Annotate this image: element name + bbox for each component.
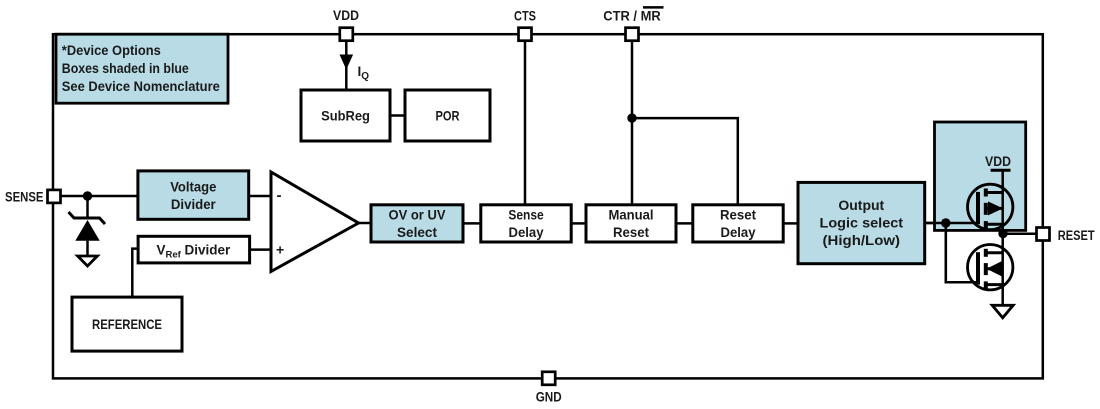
svg-text:Reset: Reset [720,207,756,223]
svg-text:*Device Options: *Device Options [62,43,161,58]
svg-text:OV or UV: OV or UV [389,207,447,223]
svg-text:IQ: IQ [358,64,370,82]
svg-text:REFERENCE: REFERENCE [92,316,162,332]
svg-text:GND: GND [536,390,562,405]
svg-text:RESET: RESET [1058,228,1096,243]
svg-text:See Device Nomenclature: See Device Nomenclature [62,79,220,94]
svg-text:Select: Select [397,224,437,240]
svg-text:CTR / MR: CTR / MR [603,9,661,24]
svg-text:Voltage: Voltage [170,178,216,194]
svg-text:CTS: CTS [514,9,536,24]
svg-text:-: - [277,187,282,204]
svg-text:Divider: Divider [171,196,216,212]
svg-text:Delay: Delay [721,224,756,240]
svg-text:+: + [276,242,284,258]
svg-text:VDD: VDD [333,8,359,23]
svg-text:VDD: VDD [985,154,1011,169]
svg-text:Delay: Delay [509,224,544,240]
svg-text:(High/Low): (High/Low) [823,232,901,248]
svg-text:SubReg: SubReg [321,108,370,124]
svg-text:POR: POR [436,108,460,124]
svg-text:Manual: Manual [609,207,654,223]
svg-text:Logic select: Logic select [820,214,904,230]
svg-text:Output: Output [838,197,884,213]
svg-text:Boxes shaded in blue: Boxes shaded in blue [62,61,189,76]
svg-text:SENSE: SENSE [5,189,44,204]
svg-text:Sense: Sense [508,207,543,223]
svg-text:Reset: Reset [613,224,649,240]
